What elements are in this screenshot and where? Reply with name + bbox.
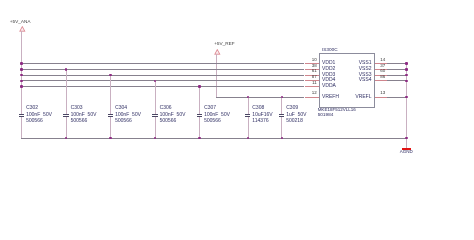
power symbol +5V_REF triangle xyxy=(214,49,221,55)
IC pin name VREFH xyxy=(322,95,339,100)
pin stub VSS2 (pin 37) xyxy=(375,69,388,70)
pin number 38 xyxy=(305,64,317,69)
capacitor C303 xyxy=(66,69,67,114)
pin stub VSS3 (pin 60) xyxy=(375,75,388,76)
wire ground bus (bottom) xyxy=(21,138,406,139)
ground AGND label xyxy=(400,150,413,155)
capacitor C304 xyxy=(110,75,111,114)
capacitor C309 xyxy=(281,97,282,114)
IC pin name VDD1 xyxy=(322,61,335,66)
junction dots on +5V_ANA feed column xyxy=(20,62,23,65)
wire VSS2 to ground column xyxy=(387,69,406,70)
IC pin name VDD4 xyxy=(322,78,335,83)
capacitor C307 xyxy=(199,86,200,114)
wire VDD2 bus (net to pin 38) xyxy=(21,69,304,70)
wire VSS1 to ground column xyxy=(387,63,406,64)
wire VSS4 to ground column xyxy=(387,80,406,81)
pin stub VSS1 (pin 14) xyxy=(375,63,388,64)
wire VDDA bus (net to pin 11) xyxy=(21,86,304,87)
wire +5V_ANA vertical drop to C302 xyxy=(21,31,22,114)
IC pin name VREFL xyxy=(342,95,372,100)
pin stub VDD2 (pin 38) xyxy=(305,69,319,70)
capacitor C306 xyxy=(155,80,156,114)
op IC U? reference IS300C xyxy=(322,48,338,53)
pin stub VREFH (pin 12) xyxy=(305,97,319,98)
ground AGND bar xyxy=(402,148,412,150)
pin number 60 xyxy=(380,69,385,74)
pin number 10 xyxy=(305,58,317,63)
IC pin name VDD2 xyxy=(322,67,335,72)
capacitor C302 xyxy=(19,114,25,115)
junction dots on ground column xyxy=(405,62,408,65)
pin number 11 xyxy=(305,81,317,86)
pin stub VDDA (pin 11) xyxy=(305,86,319,87)
wire VDD4 bus (net to pin 87) xyxy=(21,80,304,81)
wire ground vertical column (right) xyxy=(406,63,407,148)
wire VDD1 bus (net to pin 10) xyxy=(21,63,304,64)
power symbol +5V_REF label xyxy=(214,42,234,47)
wire VREFH net (to pin 12) xyxy=(216,97,304,98)
IC pin name VSS1 xyxy=(342,61,372,66)
wire VREFL to ground column xyxy=(387,97,406,98)
IC pin name VSS4 xyxy=(342,78,372,83)
IC body MKE18F512VLL16 xyxy=(319,53,376,109)
pin stub VDD4 (pin 87) xyxy=(305,80,319,81)
pin stub VREFL (pin 13) xyxy=(375,97,388,98)
IC pin name VDDA xyxy=(322,84,336,89)
IC stock number xyxy=(318,113,334,118)
pin number 61 xyxy=(305,69,317,74)
IC pin name VSS3 xyxy=(342,73,372,78)
pin number 12 xyxy=(305,91,317,96)
power symbol +5V_ANA triangle xyxy=(19,26,26,32)
pin number 14 xyxy=(380,58,385,63)
pin number 86 xyxy=(380,75,385,80)
pin number 87 xyxy=(305,75,317,80)
IC pin name VSS2 xyxy=(342,67,372,72)
capacitor C308 xyxy=(248,97,249,114)
wire VDD3 bus (net to pin 61) xyxy=(21,75,304,76)
power symbol +5V_ANA label xyxy=(10,20,31,25)
IC part number xyxy=(318,108,356,113)
wire +5V_REF vertical drop xyxy=(216,54,217,97)
pin number 37 xyxy=(380,64,385,69)
wire VSS3 to ground column xyxy=(387,75,406,76)
pin stub VDD1 (pin 10) xyxy=(305,63,319,64)
pin stub VSS4 (pin 86) xyxy=(375,80,388,81)
IC pin name VDD3 xyxy=(322,73,335,78)
pin stub VDD3 (pin 61) xyxy=(305,75,319,76)
pin number 13 xyxy=(380,91,385,96)
